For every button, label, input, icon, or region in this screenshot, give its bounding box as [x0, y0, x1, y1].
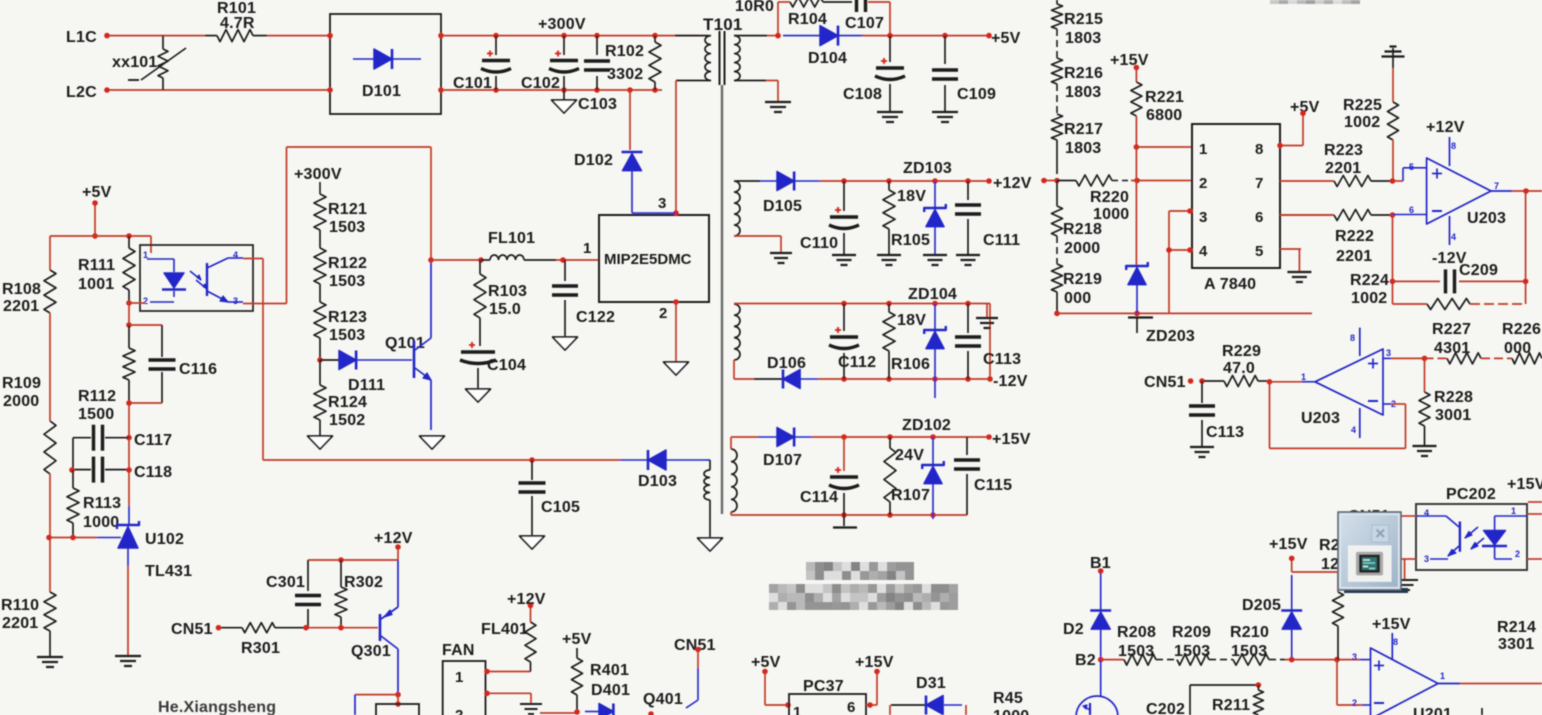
svg-text:1001: 1001	[78, 276, 114, 293]
wire collector branch	[355, 695, 398, 715]
ground C109	[932, 112, 958, 122]
label +15V pc37	[855, 654, 894, 674]
svg-text:24V: 24V	[895, 447, 924, 464]
label +15V out	[992, 431, 1031, 448]
svg-text:+15V: +15V	[1372, 616, 1411, 633]
resistor R109	[2, 375, 56, 474]
wire bottom rail a7840	[1057, 311, 1312, 317]
chassis bar C114	[833, 515, 857, 528]
svg-text:1: 1	[1301, 372, 1306, 382]
svg-text:R103: R103	[488, 283, 527, 300]
pin 1 label	[583, 240, 592, 257]
ground pin5	[1287, 272, 1311, 282]
svg-text:R228: R228	[1434, 389, 1473, 406]
svg-text:C118: C118	[134, 464, 172, 481]
wire +300V rail	[441, 35, 700, 37]
resistor R225	[1343, 68, 1399, 181]
wire to +5V	[862, 33, 992, 39]
wire r217-node	[1054, 140, 1060, 183]
svg-text:10R0: 10R0	[735, 0, 774, 15]
inductor FL101	[481, 230, 556, 260]
zener ZD104	[908, 286, 957, 398]
diode D31	[891, 675, 962, 715]
svg-text:R226: R226	[1502, 321, 1541, 338]
svg-text:8: 8	[1350, 333, 1355, 343]
node +12V q301	[395, 544, 401, 550]
wire u203b -in	[1383, 399, 1396, 409]
optocoupler transistor	[207, 250, 243, 306]
svg-text:6: 6	[1255, 209, 1264, 226]
label L2C	[66, 84, 97, 101]
wire -12V right drop	[987, 304, 993, 382]
wire node C117	[126, 400, 132, 440]
label CN51 fan	[171, 621, 221, 638]
transformer winding D103	[704, 460, 710, 537]
diode D103	[638, 450, 706, 490]
resistor R302	[335, 560, 383, 628]
svg-text:R229: R229	[1222, 343, 1261, 360]
diode D102	[574, 152, 676, 213]
capacitor C116	[129, 325, 217, 403]
label -12V out	[993, 373, 1028, 390]
capacitor C112	[829, 304, 876, 380]
svg-text:+5V: +5V	[82, 184, 112, 201]
svg-text:+12V: +12V	[374, 530, 413, 547]
wire u201 out	[1438, 671, 1542, 684]
svg-text:18V: 18V	[897, 188, 926, 205]
ground C105	[520, 536, 545, 549]
IC A7840	[1192, 124, 1280, 293]
svg-text:+12V: +12V	[993, 175, 1032, 192]
wire node R112	[126, 303, 132, 328]
ground C108	[877, 112, 903, 122]
wire chain bottom	[1054, 292, 1060, 316]
svg-text:1: 1	[1199, 141, 1208, 158]
resistor R102	[605, 33, 661, 93]
op-amp U203 lower	[1301, 349, 1383, 427]
svg-text:6: 6	[1409, 205, 1414, 215]
svg-text:D31: D31	[916, 675, 946, 692]
op-amp U203 upper	[1427, 158, 1506, 227]
svg-text:D401: D401	[591, 682, 630, 699]
label B1	[1090, 555, 1111, 574]
node q301 collector	[395, 692, 401, 707]
ground pin2	[664, 362, 689, 375]
svg-text:2: 2	[1199, 175, 1208, 192]
svg-text:2201: 2201	[3, 298, 39, 315]
svg-text:R211: R211	[1212, 697, 1250, 714]
wire r220 to pin2	[1131, 178, 1192, 184]
svg-text:C114: C114	[800, 489, 838, 506]
wire cn51 q401	[686, 651, 698, 708]
svg-text:ZD103: ZD103	[903, 160, 952, 177]
svg-text:R105: R105	[891, 232, 930, 249]
label He.Xiangsheng	[158, 699, 276, 715]
wire winding return -12V	[734, 360, 754, 379]
svg-text:C115: C115	[974, 477, 1012, 494]
chassis bar ZD203	[1128, 318, 1153, 334]
svg-text:R210: R210	[1230, 624, 1269, 641]
svg-text:C112: C112	[838, 354, 876, 371]
svg-text:ZD104: ZD104	[908, 286, 957, 303]
svg-text:C111: C111	[983, 232, 1020, 249]
resistor R211	[1212, 690, 1263, 715]
svg-text:7: 7	[1494, 181, 1499, 191]
wire opto pin1	[150, 236, 152, 253]
window icon	[1338, 512, 1408, 593]
svg-text:R209: R209	[1172, 624, 1211, 641]
svg-text:R214: R214	[1497, 619, 1536, 636]
ground winding D103	[698, 538, 723, 551]
label CN51 u203	[1144, 374, 1205, 391]
svg-text:R107: R107	[891, 487, 930, 504]
wire d31 left	[889, 705, 891, 715]
wire L2C to D101	[109, 89, 330, 91]
svg-text:1502: 1502	[329, 412, 365, 429]
svg-text:R220: R220	[1090, 189, 1129, 206]
wire c202	[1190, 682, 1261, 715]
svg-text:R113: R113	[83, 495, 121, 512]
svg-text:4.7R: 4.7R	[220, 15, 255, 32]
transformer winding 12V	[734, 181, 740, 236]
label T101	[703, 15, 743, 34]
svg-text:2: 2	[143, 296, 148, 306]
svg-text:3: 3	[233, 296, 238, 306]
resistor R111	[78, 236, 135, 303]
wire snubber left	[775, 2, 781, 38]
wire R102 to D102	[627, 87, 633, 150]
svg-text:R216: R216	[1064, 65, 1103, 82]
svg-text:+15V: +15V	[1110, 52, 1149, 69]
svg-text:1: 1	[1440, 671, 1445, 681]
label R214	[1497, 619, 1536, 653]
transformer core line	[721, 85, 723, 514]
svg-text:R224: R224	[1350, 272, 1389, 289]
wire u203b +in	[1383, 348, 1391, 358]
wire +12V power	[1426, 119, 1465, 166]
wire to T101 primary	[675, 35, 709, 37]
svg-text:3: 3	[1199, 209, 1208, 226]
wire opto pin2	[126, 300, 145, 306]
svg-text:T101: T101	[703, 15, 743, 34]
svg-text:3: 3	[1424, 554, 1429, 564]
wire u203b power dn	[1351, 408, 1360, 438]
resistor R218	[1052, 181, 1103, 258]
svg-text:D105: D105	[763, 198, 802, 215]
connector FAN	[442, 642, 486, 715]
resistor R106	[883, 304, 930, 380]
wire pc202 vcc	[1528, 501, 1542, 503]
svg-text:U201: U201	[1413, 706, 1452, 715]
wire pin6	[1280, 214, 1334, 216]
svg-text:R227: R227	[1432, 321, 1471, 338]
resistor R107	[884, 437, 930, 515]
wire pc202 pin2 out	[1527, 558, 1542, 560]
resistor R217	[1052, 114, 1104, 157]
svg-text:C110: C110	[800, 235, 838, 252]
resistor R101	[205, 0, 267, 42]
svg-text:C105: C105	[541, 499, 580, 516]
ground U102	[115, 656, 141, 666]
capacitor C103	[578, 33, 617, 113]
wire r210 to node	[1269, 657, 1360, 663]
diode D107	[758, 428, 812, 470]
svg-text:+300V: +300V	[538, 16, 586, 33]
svg-text:2000: 2000	[3, 393, 39, 410]
svg-text:2000: 2000	[1064, 240, 1100, 257]
resistor R212	[1333, 572, 1344, 660]
wire drive line	[263, 457, 648, 463]
svg-text:R302: R302	[344, 574, 383, 591]
wire u203 output	[1491, 181, 1542, 194]
wire R109-R110	[46, 474, 52, 592]
svg-text:4: 4	[233, 250, 238, 260]
pc202 transistor	[1416, 508, 1460, 564]
svg-text:2: 2	[659, 305, 668, 322]
wire winding 15V top	[731, 437, 758, 449]
wire pin2 down	[673, 299, 679, 362]
svg-text:L2C: L2C	[66, 84, 97, 101]
ground C104	[466, 389, 491, 402]
optocoupler arrows	[190, 271, 207, 289]
svg-text:6: 6	[847, 699, 856, 715]
svg-text:FL101: FL101	[488, 230, 535, 247]
wire opto pin4 down	[243, 259, 263, 461]
svg-text:3: 3	[658, 195, 667, 212]
svg-text:R301: R301	[241, 640, 280, 657]
svg-text:+12V: +12V	[1426, 119, 1465, 136]
wire FL101 b	[556, 257, 599, 263]
wire r401 bottom	[540, 709, 654, 715]
svg-text:1503: 1503	[329, 219, 365, 236]
svg-text:+15V: +15V	[1507, 476, 1542, 493]
resistor R108	[2, 236, 56, 315]
svg-text:PC202: PC202	[1446, 486, 1496, 503]
transformer T101 core	[720, 31, 725, 85]
svg-text:U203: U203	[1467, 210, 1506, 227]
transistor Q301	[351, 560, 398, 695]
capacitor C115	[954, 437, 1012, 515]
wire r208-r209	[1156, 659, 1177, 661]
capacitor C104	[460, 342, 526, 388]
svg-text:2: 2	[1515, 549, 1520, 559]
ground R105	[877, 255, 901, 265]
svg-text:R215: R215	[1064, 11, 1103, 28]
svg-text:1002: 1002	[1344, 114, 1380, 131]
wire feedback left	[1390, 215, 1396, 304]
transformer T101 primary	[705, 36, 711, 81]
svg-text:5: 5	[1409, 162, 1414, 172]
svg-text:R106: R106	[891, 356, 930, 373]
wire r215-r216	[1056, 29, 1058, 58]
optocoupler U101 box	[140, 245, 253, 311]
wire r221 to zd203	[1135, 147, 1137, 265]
svg-text:+5V: +5V	[751, 654, 781, 671]
svg-text:ZD203: ZD203	[1146, 328, 1195, 345]
svg-text:B2: B2	[1075, 652, 1096, 669]
svg-text:PC37: PC37	[803, 678, 844, 695]
capacitor C110	[800, 181, 859, 254]
svg-text:8: 8	[1393, 637, 1398, 647]
wire to u201 -in	[1337, 660, 1370, 705]
svg-text:3: 3	[1386, 348, 1391, 358]
wire +5V stub	[92, 205, 98, 239]
svg-text:1: 1	[793, 704, 802, 715]
label R212 hidden	[1319, 537, 1340, 573]
resistor R215	[1052, 0, 1104, 47]
diode D111	[320, 351, 412, 395]
ground C111	[956, 255, 980, 265]
resistor R221	[1131, 69, 1184, 147]
resistor R105	[883, 181, 930, 254]
ground ZD103	[923, 255, 947, 265]
capacitor C102	[521, 33, 579, 93]
resistor R112	[78, 325, 135, 423]
optocoupler PC202 box	[1416, 486, 1527, 570]
svg-text:C103: C103	[578, 96, 617, 113]
wire feedback top	[50, 233, 151, 239]
pin 2 label	[659, 305, 668, 322]
label L1C	[66, 29, 97, 46]
wire R108-R109	[49, 313, 51, 421]
bridge rectifier D101	[330, 14, 441, 114]
resistor R216	[1052, 58, 1104, 101]
svg-text:1: 1	[1511, 506, 1516, 516]
svg-text:R219: R219	[1063, 271, 1102, 288]
svg-text:C202: C202	[1146, 701, 1185, 715]
capacitor C114	[800, 437, 859, 515]
transformer T101 secondary 5V	[734, 36, 740, 81]
wire u201 +in	[1352, 652, 1370, 708]
wire r209-r210	[1209, 659, 1233, 661]
wire opto pin3 up	[243, 147, 287, 304]
svg-text:R218: R218	[1063, 221, 1102, 238]
zener ZD103	[903, 160, 952, 254]
ground R228	[1413, 446, 1437, 456]
svg-text:D111: D111	[348, 377, 385, 394]
svg-text:R110: R110	[1, 597, 39, 614]
svg-text:FL401: FL401	[481, 621, 528, 638]
pin 3 label	[658, 195, 667, 212]
svg-text:+5V: +5V	[991, 30, 1021, 47]
svg-text:TL431: TL431	[145, 563, 192, 580]
svg-text:000: 000	[1504, 340, 1531, 357]
svg-text:Q101: Q101	[385, 335, 425, 352]
svg-text:Q401: Q401	[643, 691, 683, 708]
svg-text:C122: C122	[576, 309, 615, 326]
ground pc202	[1396, 580, 1418, 590]
svg-text:R111: R111	[78, 257, 115, 274]
ground Q101	[420, 436, 445, 449]
svg-text:4301: 4301	[1434, 340, 1470, 357]
label +5V	[991, 30, 1021, 47]
svg-text:C116: C116	[179, 361, 217, 378]
label B2	[1075, 652, 1103, 669]
svg-text:R401: R401	[590, 662, 629, 679]
resistor R222	[1280, 210, 1390, 266]
svg-text:+12V: +12V	[507, 591, 546, 608]
svg-text:1: 1	[143, 250, 148, 260]
svg-text:C102: C102	[521, 75, 560, 92]
wire -12V top rail	[734, 301, 990, 307]
svg-text:1503: 1503	[1231, 643, 1267, 660]
wire r216-r217	[1056, 84, 1058, 114]
capacitor C209	[1393, 262, 1526, 293]
svg-text:C109: C109	[957, 86, 996, 103]
svg-text:5: 5	[1255, 243, 1264, 260]
label R45	[993, 690, 1029, 715]
ground -12V rail	[976, 304, 998, 329]
resistor R227	[1425, 321, 1513, 364]
resistor R103	[474, 260, 527, 346]
wire T101 primary bottom	[676, 81, 711, 214]
ground C113 cn51	[1190, 447, 1214, 457]
ground R124	[308, 436, 333, 449]
wire winding 12V return	[734, 236, 781, 252]
svg-text:C209: C209	[1459, 262, 1498, 279]
svg-text:2201: 2201	[1325, 160, 1361, 177]
svg-text:1500: 1500	[78, 406, 114, 423]
transformer winding -12V	[734, 304, 740, 360]
label +5V a7840	[1290, 99, 1320, 116]
capacitor C122	[552, 260, 615, 336]
svg-text:C108: C108	[843, 86, 882, 103]
svg-text:7: 7	[1255, 175, 1264, 192]
wire secondary top	[734, 35, 778, 37]
wire pc37 pin1	[765, 673, 791, 708]
svg-text:R45: R45	[993, 690, 1023, 707]
wire fan pin2	[484, 691, 531, 704]
label +300V mid	[294, 166, 342, 183]
svg-text:4: 4	[1199, 243, 1208, 260]
svg-text:CN51: CN51	[674, 637, 716, 654]
wire pins34 bracket	[1166, 208, 1193, 313]
wire u203b feedback	[1270, 382, 1406, 449]
svg-text:8: 8	[1255, 141, 1264, 158]
svg-text:R223: R223	[1324, 142, 1363, 159]
wire r227 line	[1391, 356, 1427, 362]
resistor R228	[1419, 358, 1473, 446]
resistor R301	[221, 623, 306, 657]
ground T101 secondary	[765, 102, 791, 112]
resistor R208	[1101, 624, 1156, 665]
svg-text:C113: C113	[1206, 424, 1244, 441]
wire pc37 pin6	[866, 673, 877, 708]
svg-text:1503: 1503	[1174, 643, 1210, 660]
svg-text:Q301: Q301	[351, 643, 391, 660]
wire pin1	[1136, 146, 1192, 148]
node D101 out top	[327, 33, 444, 39]
mosfet Q2	[1076, 660, 1118, 715]
wire q301 base rail	[303, 625, 378, 631]
svg-text:R112: R112	[78, 388, 116, 405]
svg-text:47.0: 47.0	[1223, 360, 1255, 377]
capacitor C107	[845, 0, 890, 32]
label +5V left	[82, 184, 112, 201]
svg-text:FAN: FAN	[442, 642, 475, 659]
resistor R110	[1, 592, 56, 632]
node pin3	[673, 210, 679, 216]
svg-text:1503: 1503	[1118, 643, 1154, 660]
node L2C	[104, 87, 110, 93]
svg-text:4: 4	[1451, 232, 1456, 242]
resistor R219	[1052, 264, 1103, 307]
svg-text:xx101: xx101	[112, 54, 158, 71]
svg-text:8: 8	[1451, 141, 1456, 151]
diode D205	[1242, 575, 1302, 658]
wire to pin1	[1270, 372, 1316, 382]
resistor R122	[314, 230, 367, 290]
